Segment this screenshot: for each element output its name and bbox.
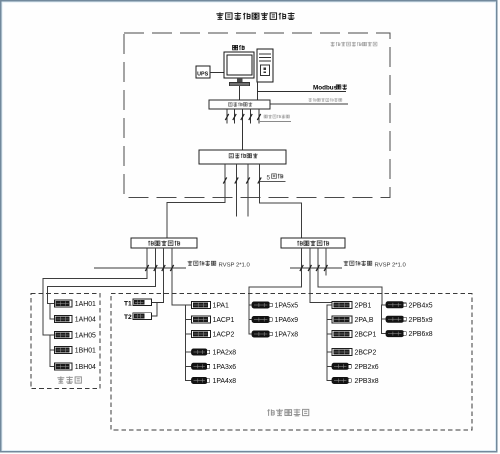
meter 2PB4x5 [386, 302, 433, 310]
cables to modules [225, 109, 291, 151]
meter 2PB1 [332, 302, 372, 310]
wire monitor to hub [239, 86, 241, 100]
meter 1PA2x8 [192, 349, 237, 357]
wire UPS to monitor [210, 72, 224, 74]
svg-text:1ACP2: 1ACP2 [213, 332, 235, 339]
cat5 lines [167, 164, 302, 238]
svg-text:2PB5x9: 2PB5x9 [409, 317, 433, 324]
svg-text:1PA2x8: 1PA2x8 [213, 350, 237, 357]
meter 1AH01 [54, 300, 96, 308]
meter 2PB2x6 [332, 363, 379, 371]
hub box 网络交换机 [209, 100, 270, 109]
meter 1BH04 [54, 363, 96, 371]
meter 1PA1 [192, 302, 230, 310]
svg-text:2PB1: 2PB1 [355, 303, 372, 310]
svg-text:RVSP 2*1.0: RVSP 2*1.0 [219, 262, 251, 268]
svg-text:1PA1: 1PA1 [213, 303, 230, 310]
meter 1PA7x8 [252, 331, 298, 339]
monitoring-room dashed box [124, 33, 390, 198]
network switch 网络交换机 [199, 150, 286, 164]
label 高压柜 [57, 376, 81, 383]
meter 1AH04 [54, 316, 96, 324]
HV meter chain wires [50, 304, 54, 367]
meter 2BCP2 [332, 349, 377, 357]
RS485 lines right [249, 248, 386, 305]
serial server left 串口服务器 [131, 238, 197, 248]
column4 chain wires [382, 305, 387, 334]
svg-text:UPS: UPS [197, 71, 208, 77]
transformer temp controller T2 [124, 313, 157, 321]
column1 chain wires [186, 305, 192, 381]
svg-text:2BCP2: 2BCP2 [355, 350, 377, 357]
meter 1PA6x9 [252, 316, 298, 324]
svg-text:1PA7x8: 1PA7x8 [275, 332, 299, 339]
meter 1PA4x8 [192, 377, 237, 385]
meter 2PB6x8 [386, 331, 433, 339]
svg-text:2PB6x8: 2PB6x8 [409, 331, 433, 338]
svg-text:5: 5 [267, 174, 271, 181]
label RVSP left [188, 261, 251, 269]
serial server right 串口服务器 [281, 238, 345, 248]
note 设于值班室配电间 [331, 42, 377, 46]
meter 1ACP1 [192, 316, 235, 324]
monitor [224, 52, 254, 86]
svg-text:1BH04: 1BH04 [75, 364, 96, 371]
UPS [196, 66, 210, 78]
column3 chain wires [327, 305, 332, 381]
svg-text:1PA6x9: 1PA6x9 [275, 317, 299, 324]
svg-text:T1: T1 [124, 300, 132, 307]
svg-text:2PB2x6: 2PB2x6 [355, 364, 379, 371]
svg-text:1AH05: 1AH05 [75, 333, 96, 340]
label 低压配电柜 [267, 409, 308, 416]
meter 1PA3x6 [192, 363, 237, 371]
meter 1BH01 [54, 347, 96, 355]
svg-text:2PB3x8: 2PB3x8 [355, 378, 379, 385]
meter 2PA,B [332, 316, 374, 324]
label 微机 [233, 45, 245, 50]
svg-text:1AH01: 1AH01 [75, 301, 96, 308]
meter 2PB5x9 [386, 316, 433, 324]
svg-text:1PA4x8: 1PA4x8 [213, 378, 237, 385]
svg-text:1PA3x6: 1PA3x6 [213, 364, 237, 371]
title 安科瑞电力监控系统 [216, 12, 294, 19]
transformer temp controller T1 [124, 299, 164, 307]
Modbus line and label [257, 84, 347, 91]
info line 引至信息管理系统 [271, 98, 349, 104]
svg-text:2BCP1: 2BCP1 [355, 332, 377, 339]
svg-text:2PA,B: 2PA,B [355, 317, 374, 324]
svg-text:Modbus: Modbus [313, 85, 338, 92]
RS485 lines left [43, 248, 192, 335]
svg-text:1AH04: 1AH04 [75, 317, 96, 324]
svg-text:2PB4x5: 2PB4x5 [409, 302, 433, 309]
meter 1AH05 [54, 332, 96, 340]
computer tower [257, 49, 273, 82]
meter 2PB3x8 [332, 377, 379, 385]
column2 chain wires [249, 305, 252, 334]
LV cabinet dashed box 低压配电柜 [111, 294, 472, 431]
HV cabinet dashed box 高压柜 [31, 294, 100, 389]
meter 1ACP2 [192, 331, 235, 339]
meter 1PA5x5 [252, 302, 298, 310]
svg-text:1PA5x5: 1PA5x5 [275, 303, 299, 310]
svg-text:1BH01: 1BH01 [75, 348, 96, 355]
svg-text:T2: T2 [124, 314, 132, 321]
meter 2BCP1 [332, 331, 377, 339]
label RVSP right [344, 261, 407, 269]
svg-text:RVSP 2*1.0: RVSP 2*1.0 [375, 262, 407, 268]
wire tower down [256, 82, 258, 100]
svg-text:1ACP1: 1ACP1 [213, 317, 235, 324]
